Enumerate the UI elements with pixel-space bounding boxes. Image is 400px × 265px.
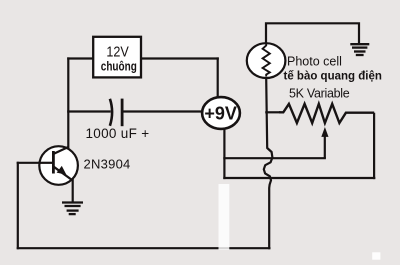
wire: horizontal from +9V to pot right (H2) xyxy=(224,177,374,179)
svg-text:2N3904: 2N3904 xyxy=(84,157,131,172)
collector diagonal xyxy=(54,147,68,154)
battery +9V xyxy=(202,97,240,129)
base bar xyxy=(52,151,55,174)
wire: 12V box left to left vertical corner xyxy=(68,57,93,59)
svg-text:1000 uF +: 1000 uF + xyxy=(86,126,150,141)
photo cell LDR xyxy=(247,43,286,78)
12V box xyxy=(93,37,141,78)
base lead inside xyxy=(39,162,53,164)
wire: base lead xyxy=(18,162,53,164)
wiper arrow of potentiometer xyxy=(324,134,326,158)
photocell inner zigzag xyxy=(263,44,270,77)
white artifact band over bottom wire xyxy=(219,184,230,250)
wire: pot right lead down xyxy=(373,114,375,178)
svg-text:+9V: +9V xyxy=(204,104,237,124)
emitter arrowhead xyxy=(57,166,67,175)
wire: tee to capacitor left plate xyxy=(68,110,109,112)
wire: pot left lead from vertical xyxy=(266,111,279,113)
svg-text:tế bào quang điện: tế bào quang điện xyxy=(284,71,382,83)
svg-text:Photo cell: Photo cell xyxy=(287,54,342,68)
svg-text:12V: 12V xyxy=(106,44,128,60)
wire: left vertical to transistor base xyxy=(17,163,19,248)
label 12V xyxy=(106,44,128,60)
wire: capacitor right plate to +9V left xyxy=(123,110,202,112)
wire: +9V top lead xyxy=(217,59,219,99)
white artifact square bottom right xyxy=(372,252,380,259)
svg-text:chuông: chuông xyxy=(101,61,137,74)
ground (emitter) xyxy=(62,203,83,215)
wire: horizontal from +9V to wiper (H1) xyxy=(224,157,324,159)
ground (top right) xyxy=(350,44,369,55)
wire: photocell bottom vertical with crossover hops xyxy=(264,79,273,248)
wire: emitter lead down to ground xyxy=(72,180,74,202)
wire: left vertical (collector rail) xyxy=(67,59,69,148)
transistor Q1 2N3904 xyxy=(39,146,78,185)
wire: bottom return wire xyxy=(18,247,270,249)
svg-text:5K Variable: 5K Variable xyxy=(289,86,350,100)
emitter diagonal xyxy=(54,167,73,181)
wire: photocell top lead and run to ground xyxy=(266,23,359,44)
wire: +9V bottom lead xyxy=(223,129,225,179)
wire: 12V box right to +9V top corner xyxy=(141,57,218,59)
potentiometer 5K zigzag xyxy=(279,104,374,123)
label chuong xyxy=(101,61,137,74)
capacitor C1 xyxy=(110,99,122,127)
